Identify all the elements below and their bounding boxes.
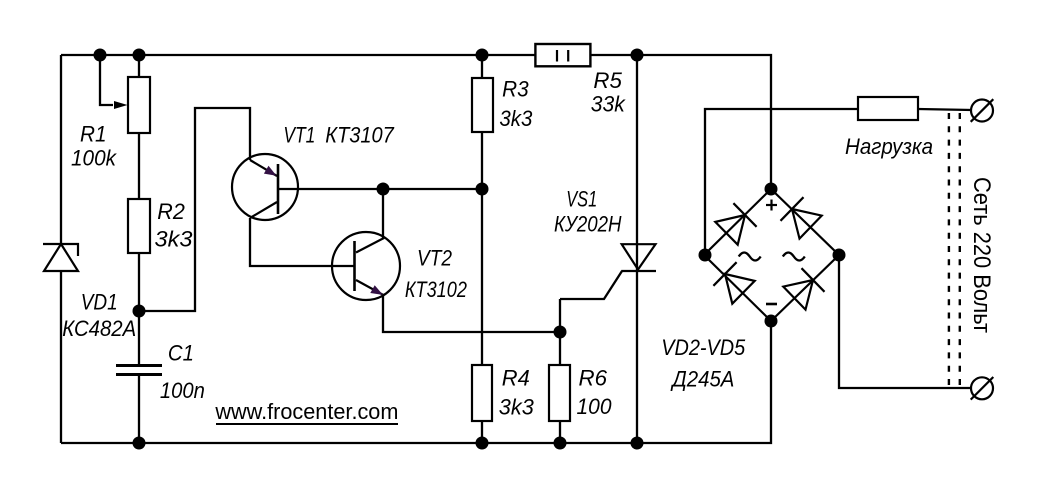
node bridge left <box>699 249 712 262</box>
svg-text:100k: 100k <box>71 146 117 171</box>
svg-text:КС482А: КС482А <box>62 316 136 341</box>
zener diode VD1 <box>43 244 78 271</box>
node top rail / VS1 <box>631 49 644 62</box>
diode VD top-left <box>715 215 745 245</box>
wire R3-R4 vertical <box>481 55 483 443</box>
wire VT1 collector to VT2 base <box>250 218 354 266</box>
wire bridge right node to bottom terminal <box>839 255 972 388</box>
wire R1-R2 branch vertical <box>138 55 140 311</box>
node R3 bottom <box>476 183 489 196</box>
plus sign <box>766 200 777 211</box>
node bottom rail / VS1 <box>631 437 644 450</box>
svg-text:R4: R4 <box>502 365 530 390</box>
dashed mains line left <box>948 113 950 387</box>
wire bridge diamond edges <box>704 189 839 321</box>
svg-text:VD2-VD5: VD2-VD5 <box>661 335 746 360</box>
resistor R6 <box>549 365 570 421</box>
svg-text:100: 100 <box>577 394 613 419</box>
minus sign <box>766 303 777 306</box>
svg-text:R2: R2 <box>157 199 185 224</box>
thyristor VS1 <box>621 244 656 271</box>
node bottom rail / R6 <box>554 437 567 450</box>
AC tilde right <box>783 253 805 261</box>
svg-text:3k3: 3k3 <box>499 106 533 131</box>
wire load to top terminal <box>918 109 972 110</box>
svg-text:33k: 33k <box>591 92 626 117</box>
node bottom rail / R4 <box>476 437 489 450</box>
svg-text:VD1: VD1 <box>81 289 118 314</box>
node VT1 base / VT2 collector <box>377 183 390 196</box>
wire VS1 gate <box>560 271 622 299</box>
svg-text:VT2: VT2 <box>417 246 452 271</box>
wire divider tap to VT1 emitter <box>139 108 250 311</box>
node bridge right <box>833 249 846 262</box>
svg-text:R6: R6 <box>579 365 608 390</box>
wire left vertical (to VD1 cathode) <box>60 55 62 244</box>
svg-text:КУ202Н: КУ202Н <box>554 211 622 236</box>
wire VT1 base to R3 bottom <box>278 188 482 190</box>
wire VS1 anode-cathode vertical <box>636 55 638 443</box>
svg-text:VT1: VT1 <box>283 122 315 147</box>
diode VD bottom-left <box>725 274 755 304</box>
resistor R4 <box>472 365 492 421</box>
svg-text:R5: R5 <box>593 68 622 93</box>
wire VT2 collector up <box>382 189 384 238</box>
capacitor C1 <box>116 366 162 375</box>
wire bottom rail <box>61 321 771 443</box>
wire bridge left node to load <box>705 109 858 255</box>
bridge rectifier VD2-VD5 <box>704 189 839 321</box>
wire top rail <box>61 55 771 189</box>
svg-text:100n: 100n <box>160 378 205 403</box>
svg-text:C1: C1 <box>168 340 194 365</box>
svg-text:Д245А: Д245А <box>670 366 735 391</box>
potentiometer R1 <box>114 77 150 133</box>
diode VD bottom-right <box>783 280 813 310</box>
AC tilde left <box>739 253 761 261</box>
wire R1 wiper feed <box>100 55 113 105</box>
node gate / R6 <box>554 326 567 339</box>
svg-text:VS1: VS1 <box>566 187 597 212</box>
resistor R2 <box>128 199 150 253</box>
resistor R5 <box>535 44 590 66</box>
transistor VT1 <box>232 154 298 220</box>
svg-text:3k3: 3k3 <box>155 227 194 252</box>
svg-text:Нагрузка: Нагрузка <box>845 134 933 159</box>
diode VD top-right <box>792 209 822 239</box>
wire VD1 anode to bottom rail <box>60 271 62 443</box>
dashed mains line right <box>959 113 961 387</box>
svg-text:R1: R1 <box>80 121 107 146</box>
node divider tap <box>133 305 146 318</box>
node top rail / R1 <box>133 49 146 62</box>
terminal top <box>971 99 994 122</box>
node bridge top <box>765 183 778 196</box>
svg-text:КТ3107: КТ3107 <box>325 122 394 147</box>
svg-text:КТ3102: КТ3102 <box>405 277 467 302</box>
wire C1 branch <box>138 311 140 365</box>
wire VT2 emitter down and right <box>383 295 560 332</box>
node bottom rail / C1 <box>133 437 146 450</box>
svg-text:3k3: 3k3 <box>499 395 535 420</box>
resistor R3 <box>472 78 493 132</box>
wire R6 vertical <box>559 299 561 443</box>
load resistor <box>858 97 918 120</box>
svg-text:www.frocenter.com: www.frocenter.com <box>214 399 398 424</box>
terminal bottom <box>971 377 994 400</box>
node top rail / wiper <box>94 49 107 62</box>
node bridge bottom <box>765 315 778 328</box>
svg-text:Сеть 220 Вольт: Сеть 220 Вольт <box>968 177 995 333</box>
transistor VT2 <box>332 232 400 300</box>
svg-text:R3: R3 <box>502 77 529 102</box>
node top rail / R3 <box>476 49 489 62</box>
